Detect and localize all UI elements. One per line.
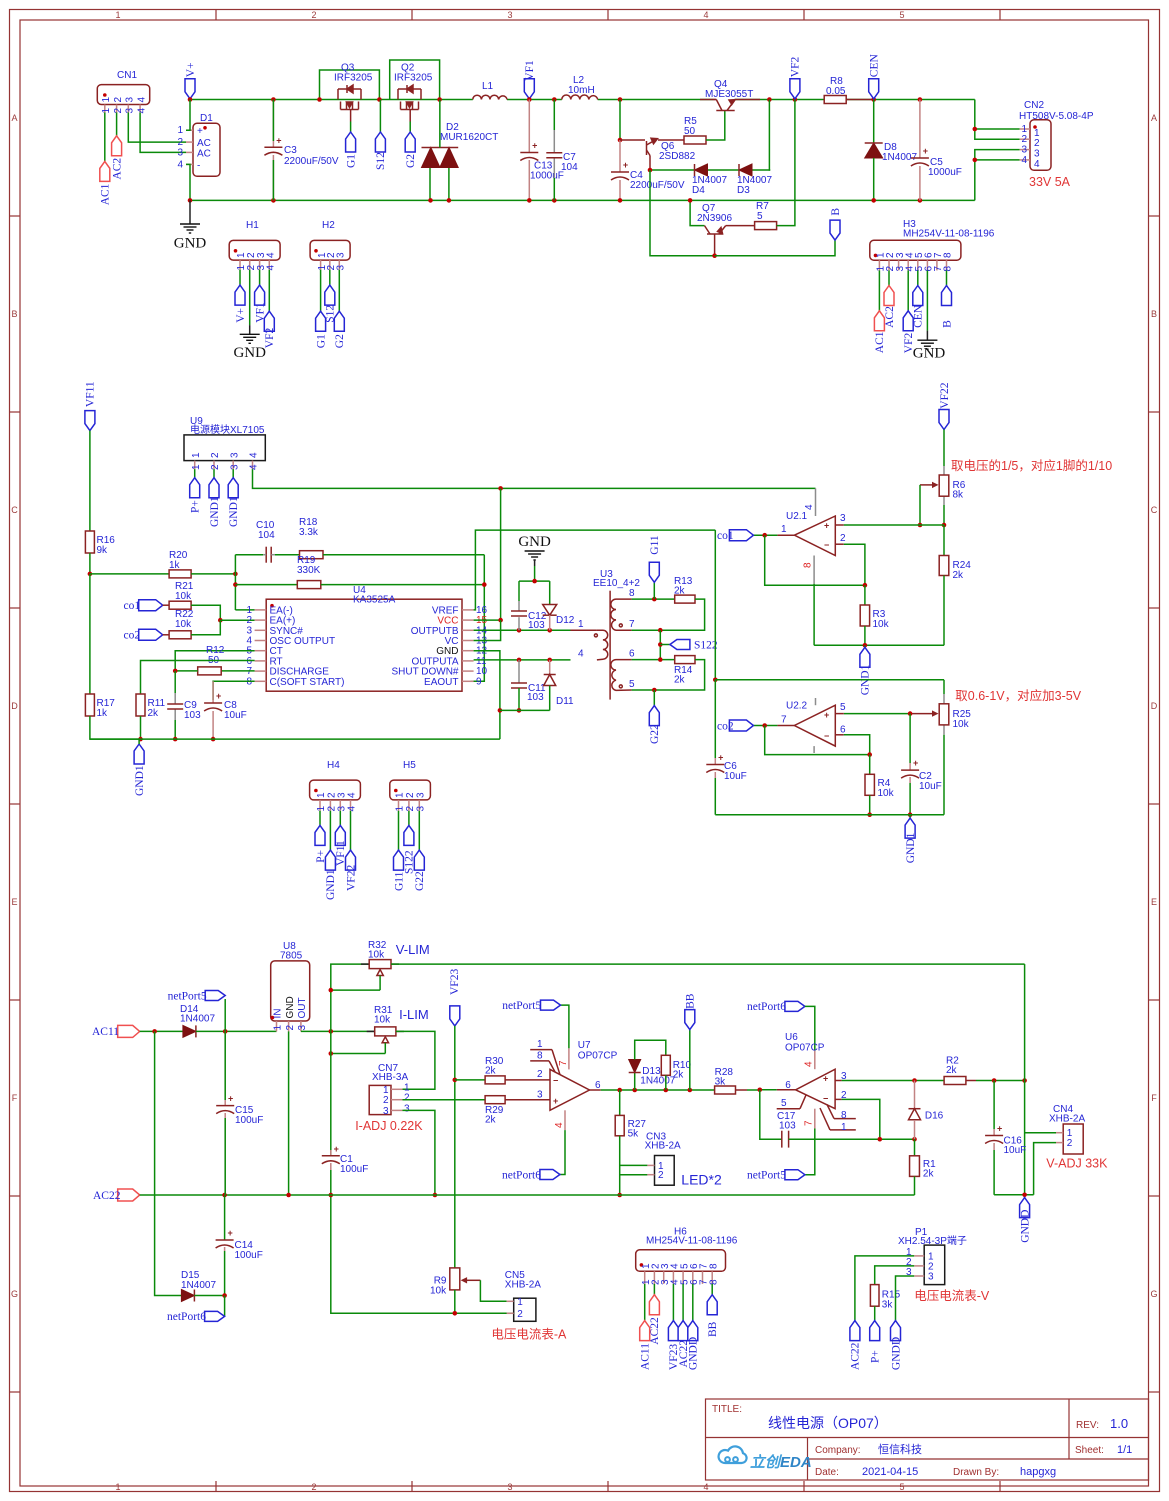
svg-text:A: A [11, 113, 17, 123]
wire P1 pin2 to R15 [875, 1266, 915, 1285]
wire Q7 base [690, 200, 704, 225]
wire H1 pin1 to V+ [239, 270, 241, 285]
svg-text:netPort5: netPort5 [747, 1170, 786, 1182]
junction D15 branch [152, 1029, 157, 1034]
net flag VF1 [524, 79, 534, 99]
resistor R15 [870, 1285, 879, 1307]
svg-text:LED*2: LED*2 [681, 1171, 722, 1187]
junction GNDD column [1022, 1078, 1027, 1083]
diode D4 1N4007 [695, 164, 708, 176]
svg-text:MJE3055T: MJE3055T [705, 89, 753, 100]
wire H2 pin1 to G1 [320, 270, 322, 312]
junction R27 [617, 1088, 622, 1093]
svg-text:+: + [276, 135, 281, 145]
svg-text:10mH: 10mH [568, 85, 595, 96]
svg-text:GND: GND [518, 534, 551, 550]
wire R17 to GND1 rail [90, 716, 139, 739]
wire R30 row [455, 1079, 485, 1081]
wire GND1 bottom line (U2.2) [715, 814, 944, 816]
junction C3 top [271, 97, 276, 102]
wire pin7 to R12 [221, 670, 254, 672]
wire GND rail to CN2 pins 3-4 [975, 150, 1020, 201]
junction R19 left [233, 582, 238, 587]
wire U9 pin1 to P+ [194, 469, 196, 478]
wire U2.1 output to co1 [777, 534, 794, 536]
net flag VF22 (H4) [346, 850, 356, 870]
wire Q2 gate to G2 [409, 122, 411, 133]
svg-text:10k: 10k [430, 1286, 447, 1297]
svg-text:8: 8 [943, 252, 954, 258]
svg-text:U2.2: U2.2 [786, 701, 808, 712]
wire VREF down to R25 row [714, 530, 716, 680]
net flag AC1 [100, 161, 110, 181]
svg-text:XH2.54-3P端子: XH2.54-3P端子 [898, 1234, 967, 1247]
svg-text:3: 3 [177, 147, 183, 158]
junction GND stub [532, 579, 537, 584]
wire U7 output row [590, 1089, 601, 1091]
regulator U8 7805 [271, 961, 310, 1021]
svg-text:netPort6: netPort6 [502, 1169, 541, 1181]
svg-text:330K: 330K [297, 565, 321, 576]
wire comp node to U4 pin1 [235, 609, 254, 611]
svg-text:1k: 1k [97, 708, 109, 719]
junction comp/R19 [482, 582, 487, 587]
svg-text:+: + [197, 126, 203, 137]
wire R3 top [864, 585, 866, 605]
svg-text:2k: 2k [148, 708, 160, 719]
ground GND below H1 [249, 325, 251, 334]
svg-text:4: 4 [347, 806, 358, 812]
port AC22 [118, 1189, 140, 1201]
svg-text:33V 5A: 33V 5A [1029, 175, 1071, 189]
connector P1 XH2.54-3P [924, 1245, 945, 1285]
wire D15 row [155, 1031, 182, 1295]
junction C8 bottom [211, 737, 216, 742]
svg-text:8: 8 [629, 588, 635, 599]
svg-text:3: 3 [125, 97, 136, 103]
net flag GNDD (H6) [688, 1321, 698, 1341]
wire feedback loop [765, 535, 865, 585]
svg-text:AC22: AC22 [649, 1317, 661, 1345]
connector H6 [636, 1250, 726, 1272]
wire CN7 pin2 to R29 row [402, 1099, 485, 1101]
net flag GND1 (U9 pin2) [209, 478, 219, 498]
wire S122 column [659, 630, 661, 659]
wire VREF pin16 up and right [474, 530, 716, 610]
svg-text:C: C [11, 505, 18, 515]
svg-text:G: G [1150, 1289, 1157, 1299]
net port netPort6 (U7) [540, 1170, 560, 1180]
wire OUTPUTA pin11 to transformer pin4 [474, 659, 571, 661]
net flag B [830, 220, 840, 240]
wire C17 right to pin2/D16 [789, 1138, 915, 1140]
wire H6 pin6 to GNDD [692, 1284, 694, 1321]
svg-text:2: 2 [383, 1095, 389, 1106]
svg-text:10k: 10k [175, 619, 192, 630]
net flag AC1 (H3) [874, 311, 884, 331]
junction [517, 708, 522, 713]
diode D3 1N4007 [739, 164, 752, 176]
wire H4 pin4 to VF22 [350, 811, 352, 850]
wire R4 bottom [869, 795, 871, 814]
svg-text:GND: GND [913, 346, 946, 362]
wire H3 pin2 to AC2 [888, 270, 890, 285]
wire R31 wiper [331, 1053, 386, 1055]
wire R5 right to Q4 base [706, 111, 725, 140]
svg-text:I-ADJ 0.22K: I-ADJ 0.22K [355, 1119, 423, 1133]
svg-text:+: + [923, 146, 928, 156]
svg-text:co2: co2 [124, 629, 141, 641]
svg-text:立创EDA: 立创EDA [750, 1453, 812, 1471]
svg-text:4: 4 [578, 649, 584, 660]
svg-text:2200uF/50V: 2200uF/50V [630, 180, 685, 191]
wire Q6 emitter column to Q7 loop [650, 170, 715, 256]
svg-text:7805: 7805 [280, 951, 303, 962]
wire CN3 pin2 [620, 1174, 648, 1176]
junction pin2 node [218, 618, 223, 623]
svg-text:VF2: VF2 [264, 327, 276, 348]
svg-text:103: 103 [779, 1121, 796, 1132]
wire OUTPUTB pin14 to transformer pin1 [474, 629, 571, 631]
svg-text:10k: 10k [175, 591, 192, 602]
svg-text:7: 7 [558, 1060, 569, 1066]
wire D12 anode [549, 581, 551, 604]
svg-text:9k: 9k [97, 545, 109, 556]
svg-text:104: 104 [561, 162, 578, 173]
junction C2 top [908, 711, 913, 716]
wire R2 right [976, 1080, 1025, 1082]
svg-text:Sheet:: Sheet: [1075, 1445, 1104, 1456]
svg-text:3k: 3k [882, 1300, 894, 1311]
svg-text:G2: G2 [405, 154, 417, 168]
wire V-LIM column down / GNDD column [1024, 964, 1026, 1198]
svg-text:7: 7 [804, 1120, 815, 1126]
wire B flag line [715, 240, 835, 256]
wire C6 top [714, 680, 716, 758]
svg-text:co1: co1 [717, 530, 734, 542]
wire C6 bottom [714, 778, 716, 815]
svg-text:V+: V+ [185, 62, 197, 77]
wire GND pin12 to cap bottoms [474, 651, 500, 739]
svg-text:电压电流表-V: 电压电流表-V [914, 1289, 990, 1303]
svg-text:1: 1 [191, 464, 202, 470]
net port co2 [139, 629, 163, 640]
connector H4 [310, 780, 361, 800]
svg-text:+: + [913, 758, 918, 768]
svg-text:E: E [1151, 897, 1157, 907]
wire U2.1 pin8 to GND1 line [813, 584, 815, 646]
svg-text:6: 6 [629, 649, 635, 660]
svg-text:2: 2 [210, 464, 221, 470]
wire CN4 pin1 [1025, 1132, 1056, 1134]
wire pin6 RT to R11 [141, 661, 255, 695]
svg-text:2k: 2k [485, 1066, 497, 1077]
junction G22 [652, 688, 657, 693]
wire CN1 pin2 to AC2 [116, 113, 118, 136]
svg-text:3: 3 [229, 452, 240, 458]
svg-text:1.0: 1.0 [1110, 1416, 1128, 1431]
junction GND rail at D1 [188, 198, 193, 203]
svg-text:4: 4 [703, 1482, 708, 1492]
junction co1/feedback [762, 533, 767, 538]
junction wiper [918, 523, 923, 528]
svg-text:2: 2 [285, 1025, 296, 1031]
wire comp column down to EAOUT pin9 [471, 555, 485, 682]
svg-text:V+: V+ [235, 308, 247, 323]
wire V+ to D1 pin1 [186, 100, 190, 131]
resistor R17 [85, 694, 94, 716]
svg-text:BB: BB [685, 993, 697, 1009]
net flag AC11 (H6) [640, 1321, 650, 1341]
svg-text:3: 3 [125, 108, 136, 114]
net flag GNDD (CN4 area) [1020, 1198, 1030, 1218]
wire top rail segments [190, 99, 473, 101]
svg-text:3: 3 [297, 1025, 308, 1031]
junction pin6 [658, 657, 663, 662]
wire P1 pin1 to AC22 [855, 1256, 914, 1321]
svg-text:2: 2 [1021, 134, 1027, 145]
wire R20 row [90, 573, 169, 575]
junction netPort5/C15 [223, 1029, 228, 1034]
svg-text:4: 4 [136, 97, 147, 103]
svg-text:2k: 2k [923, 1169, 935, 1180]
svg-text:线性电源（OP07）: 线性电源（OP07） [768, 1415, 888, 1431]
svg-text:2: 2 [311, 10, 316, 20]
svg-text:4: 4 [266, 265, 277, 271]
wire U7 pin7 to netPort5 [561, 1005, 569, 1048]
svg-text:1: 1 [101, 108, 112, 114]
junction [447, 198, 452, 203]
svg-text:2k: 2k [485, 1115, 497, 1126]
wire U8 OUT row [301, 1030, 375, 1032]
svg-text:BB: BB [707, 1321, 719, 1337]
svg-text:MH254V-11-08-1196: MH254V-11-08-1196 [646, 1236, 738, 1247]
svg-text:1: 1 [101, 97, 112, 103]
svg-text:2: 2 [311, 1482, 316, 1492]
wire rail to CN2 pins 1-2 [975, 100, 1020, 140]
net flag VF1 (H1) [255, 285, 265, 305]
svg-text:D12: D12 [556, 615, 575, 626]
svg-text:S122: S122 [694, 639, 718, 651]
EasyEDA logo [719, 1446, 747, 1463]
wire R4 top [869, 755, 871, 775]
wire bottom GND rail [190, 199, 975, 201]
svg-text:10k: 10k [374, 1015, 391, 1026]
capacitor C14 [224, 1195, 226, 1240]
svg-text:IRF3205: IRF3205 [394, 73, 433, 84]
junction GND/cap bottom line [498, 708, 503, 713]
svg-text:P+: P+ [870, 1350, 882, 1363]
wire D4-D3 row [650, 169, 695, 171]
junction CEN [871, 97, 876, 102]
svg-text:7: 7 [629, 619, 635, 630]
junction [329, 988, 334, 993]
diode D11 [544, 675, 556, 686]
wire Q3 gate to G1 [350, 122, 352, 133]
junction R4 top [867, 752, 872, 757]
wire C10 left [235, 554, 263, 556]
wire CN3 pin1 [620, 1164, 648, 1166]
svg-text:8: 8 [708, 1263, 719, 1269]
svg-text:2021-04-15: 2021-04-15 [862, 1466, 918, 1478]
svg-text:100uF: 100uF [340, 1164, 368, 1175]
ground GND below D1 [189, 200, 191, 224]
svg-text:VF22: VF22 [345, 865, 357, 891]
junction VF1 [527, 97, 532, 102]
capacitor C13 [528, 100, 530, 153]
svg-text:GND: GND [233, 345, 266, 361]
junction D16 bottom [912, 1137, 917, 1142]
diode D2b [440, 148, 458, 168]
wire R12 left [175, 670, 198, 672]
junction VCC [498, 618, 503, 623]
svg-text:C3: C3 [284, 145, 297, 156]
junction C4 bottom [618, 198, 623, 203]
wire C16 top [993, 1081, 995, 1130]
wire U6 pin2 [835, 1098, 842, 1100]
wire S12 stub [379, 100, 381, 133]
svg-text:2: 2 [840, 533, 846, 544]
wire H6 pin5 to AC22 [682, 1284, 684, 1321]
svg-text:TITLE:: TITLE: [712, 1404, 742, 1415]
svg-text:G: G [11, 1289, 18, 1299]
svg-text:4: 4 [266, 252, 277, 258]
svg-text:1: 1 [395, 806, 406, 812]
svg-text:VF2: VF2 [790, 56, 802, 77]
wire D2 right anode [448, 168, 450, 201]
wire H2 pin2 to S12 [329, 270, 331, 285]
wire R9 wiper to CN5 pin1 [480, 1280, 506, 1301]
wire GND1 bottom rail [90, 738, 500, 740]
svg-text:GND1: GND1 [134, 765, 146, 796]
transformer secondary winding A pins 8-7 [611, 599, 632, 630]
net flag G2 [405, 132, 415, 152]
svg-text:P+: P+ [190, 500, 202, 513]
svg-text:+: + [532, 141, 537, 151]
svg-text:Date:: Date: [815, 1467, 839, 1478]
svg-text:netPort5: netPort5 [168, 990, 207, 1002]
wire C14 bottom [224, 1251, 226, 1296]
wire U6 output to R28 node [777, 1089, 796, 1091]
svg-text:5: 5 [781, 1098, 787, 1109]
svg-text:EAOUT: EAOUT [424, 677, 458, 688]
svg-text:netPort6: netPort6 [747, 1001, 786, 1013]
svg-text:AC1: AC1 [100, 183, 112, 205]
wire AC22 rail [140, 1194, 915, 1196]
svg-text:VF22: VF22 [939, 382, 951, 408]
svg-text:U2.1: U2.1 [786, 511, 808, 522]
wire VF11 down to R16 [89, 431, 91, 531]
wire U9 pin2 to GND1 [213, 469, 215, 478]
junction [437, 97, 442, 102]
wire VF22 down to R6 [943, 430, 945, 467]
svg-text:1: 1 [781, 524, 787, 535]
wire U2.1 pin2 [835, 543, 844, 545]
svg-text:1: 1 [316, 806, 327, 812]
wire feedback loop U2.2 [765, 726, 870, 755]
diode D15 1N4007 [181, 1290, 194, 1302]
wire loop Q2 drain-source [390, 60, 440, 100]
svg-text:−: − [824, 540, 829, 550]
transformer primary winding [571, 629, 597, 631]
svg-text:GNDD: GNDD [1019, 1210, 1031, 1243]
svg-text:AC11: AC11 [92, 1026, 119, 1038]
wire C16 bottom [993, 1150, 995, 1195]
svg-text:10k: 10k [878, 788, 895, 799]
svg-text:AC: AC [197, 148, 211, 159]
junction D11 cathode [547, 658, 552, 663]
wire R32 right V-LIM long line [391, 963, 1025, 965]
wire H6 pin1 to AC11 [644, 1284, 646, 1321]
wire H4 pin3 to VF11 [339, 811, 341, 826]
junction Q4 emitter node [767, 97, 772, 102]
wire CN1 pin1 to AC1 [104, 113, 106, 162]
connector H3 MH254V-11-08-1196 [870, 240, 961, 260]
svg-text:co2: co2 [717, 720, 734, 732]
U7 pin4 power [564, 1110, 566, 1130]
net port netPort5 (U6) [785, 1170, 805, 1180]
svg-text:10uF: 10uF [224, 710, 247, 721]
wire D2 common cathode [422, 147, 459, 149]
wire BB stem [689, 1030, 691, 1090]
wire R1 top [914, 1139, 916, 1156]
title block [706, 1399, 1149, 1480]
wire CN7 pin3 down to AC22 [402, 1110, 435, 1195]
svg-text:AC11: AC11 [640, 1343, 652, 1370]
wire CN1 pin4 to D1 pin3 [140, 113, 186, 153]
svg-text:GND: GND [174, 236, 207, 252]
svg-text:2200uF/50V: 2200uF/50V [284, 156, 339, 167]
svg-text:2: 2 [1067, 1138, 1073, 1149]
svg-text:2: 2 [113, 108, 124, 114]
svg-text:1: 1 [517, 1297, 523, 1308]
junction C13 bottom [527, 198, 532, 203]
transformer core [609, 591, 611, 700]
net port netPort5 (U7) [541, 1000, 561, 1010]
svg-text:D4: D4 [692, 185, 705, 196]
connector H1 [229, 240, 280, 260]
net flag GNDD (P1) [891, 1321, 901, 1341]
connector CN1 [97, 85, 149, 105]
svg-text:+: + [216, 691, 221, 701]
svg-text:CN2: CN2 [1024, 100, 1044, 111]
junction CN2 pin4 [973, 158, 978, 163]
svg-text:10uF: 10uF [724, 771, 747, 782]
svg-text:4: 4 [804, 504, 815, 510]
svg-text:9: 9 [476, 676, 482, 687]
svg-text:XHB-2A: XHB-2A [1049, 1114, 1085, 1125]
svg-text:+: + [824, 521, 829, 531]
diode D2a [422, 148, 441, 168]
svg-text:MH254V-11-08-1196: MH254V-11-08-1196 [903, 229, 995, 240]
net flag P+ (P1) [870, 1321, 880, 1341]
wire feedback to C17 [760, 1090, 782, 1139]
svg-text:3: 3 [404, 1103, 410, 1114]
connector CN4 XHB-2A [1063, 1124, 1083, 1154]
wire R19 row [235, 584, 297, 586]
diode D8 [873, 100, 875, 144]
U6 pin5 stub [777, 1108, 800, 1110]
port AC11 [118, 1025, 140, 1037]
resistor R29 [485, 1096, 505, 1104]
svg-text:1: 1 [578, 619, 584, 630]
connector H5 [390, 780, 431, 800]
wire R1 bottom [914, 1176, 916, 1195]
svg-text:+: + [227, 1228, 232, 1238]
svg-text:G11: G11 [649, 535, 661, 555]
wire netPort6 to U6 pin4 [805, 1006, 815, 1050]
svg-text:B: B [941, 320, 953, 328]
